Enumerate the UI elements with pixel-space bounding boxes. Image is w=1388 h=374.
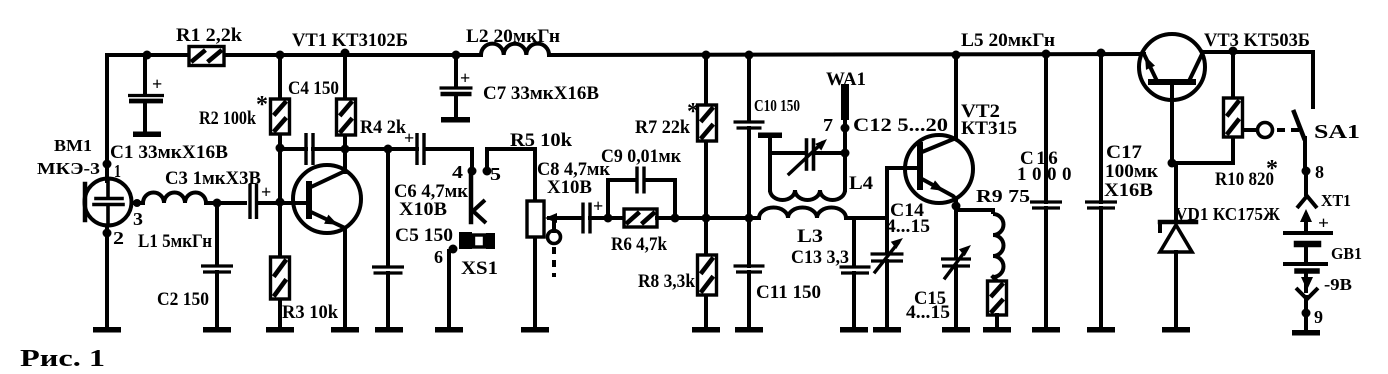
svg-text:SA1: SA1 [1314,121,1360,143]
svg-text:R1 2,2k: R1 2,2k [176,25,242,46]
svg-text:C4 150: C4 150 [288,78,339,99]
svg-text:R7 22k: R7 22k [635,117,690,138]
svg-text:C11 150: C11 150 [756,282,821,303]
svg-text:C17: C17 [1106,142,1143,163]
svg-text:+: + [460,68,470,88]
svg-text:L3: L3 [797,226,823,247]
svg-text:*: * [687,99,699,125]
svg-text:*: * [256,92,268,118]
svg-text:4...15: 4...15 [906,302,950,323]
svg-text:C3 1мкХ3В: C3 1мкХ3В [165,168,261,189]
svg-text:C9 0,01мк: C9 0,01мк [601,146,681,167]
svg-text:9: 9 [1314,307,1323,327]
svg-text:VD1 КС175Ж: VD1 КС175Ж [1175,204,1280,224]
svg-text:X16В: X16В [1104,180,1153,201]
svg-text:5: 5 [490,164,501,184]
svg-text:L5 20мкГн: L5 20мкГн [961,30,1055,51]
svg-text:L1 5мкГн: L1 5мкГн [138,231,212,252]
svg-text:R9 75: R9 75 [976,186,1030,206]
svg-text:+: + [152,74,162,94]
svg-text:XT1: XT1 [1321,191,1351,210]
svg-text:+: + [261,182,271,202]
svg-text:100мк: 100мк [1105,161,1158,182]
svg-text:КТ315: КТ315 [961,118,1017,139]
svg-text:C13 3,3: C13 3,3 [791,247,849,268]
svg-text:C12 5...20: C12 5...20 [853,115,948,136]
svg-text:-9В: -9В [1324,275,1352,294]
svg-text:2: 2 [113,228,124,248]
svg-text:R8 3,3k: R8 3,3k [638,271,695,292]
svg-text:1000: 1000 [1017,164,1077,185]
svg-text:МКЭ-3: МКЭ-3 [37,159,100,178]
svg-text:8: 8 [1315,162,1324,182]
svg-text:*: * [1266,156,1278,182]
svg-text:Рис. 1: Рис. 1 [20,346,105,372]
svg-text:C10 150: C10 150 [754,96,800,115]
svg-text:4: 4 [452,162,463,182]
svg-text:Х10В: Х10В [547,177,592,198]
svg-text:GB1: GB1 [1331,244,1362,263]
svg-text:1: 1 [114,161,121,181]
svg-text:L2 20мкГн: L2 20мкГн [466,26,560,47]
svg-text:XS1: XS1 [461,258,498,279]
svg-text:4...15: 4...15 [886,216,930,237]
svg-text:6: 6 [434,247,443,267]
svg-text:ВМ1: ВМ1 [54,136,92,155]
svg-text:C1 33мкХ16В: C1 33мкХ16В [110,142,228,163]
svg-text:+: + [1318,213,1329,233]
svg-text:7: 7 [823,115,833,135]
svg-text:+: + [593,196,603,216]
svg-text:R4 2k: R4 2k [360,117,406,138]
svg-text:3: 3 [133,209,143,229]
svg-text:Х10В: Х10В [399,199,447,220]
svg-text:VT1 KT3102Б: VT1 KT3102Б [292,30,408,51]
svg-text:VT3 KT503Б: VT3 KT503Б [1204,30,1310,51]
svg-text:R5 10k: R5 10k [510,130,572,151]
svg-text:C2 150: C2 150 [157,289,209,310]
svg-text:R6 4,7k: R6 4,7k [611,234,667,255]
svg-text:R3 10k: R3 10k [282,302,338,323]
svg-text:R2 100k: R2 100k [199,108,256,129]
svg-text:WA1: WA1 [826,69,866,90]
svg-text:L4: L4 [849,173,874,194]
svg-text:C5 150: C5 150 [395,225,453,246]
svg-text:C7 33мкХ16В: C7 33мкХ16В [483,83,599,104]
